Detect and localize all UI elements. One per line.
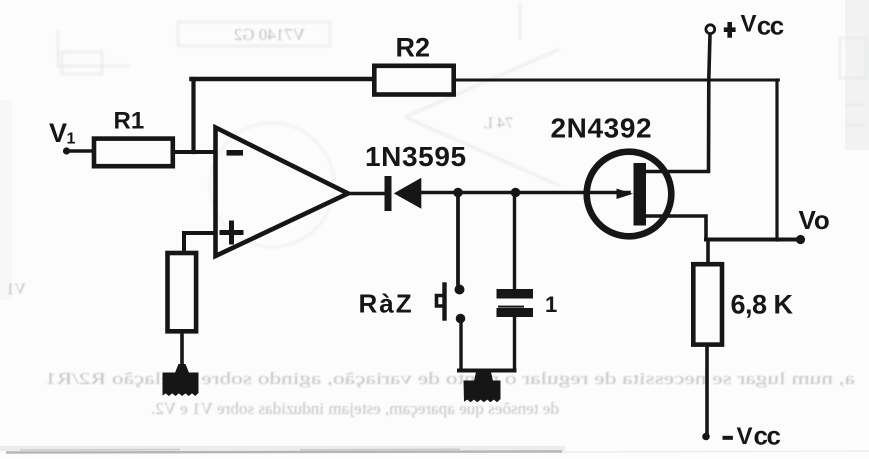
svg-text:R1: R1 (114, 108, 145, 135)
svg-text:1N3595: 1N3595 (365, 141, 467, 172)
-Vcc terminal (702, 433, 710, 441)
switch RaZ actuator (442, 285, 446, 319)
transistor Q1 channel bar (634, 163, 647, 226)
transistor Q1 source lead (646, 216, 706, 240)
op-amp U1 (216, 128, 349, 257)
svg-text:RàZ: RàZ (359, 289, 414, 319)
wire output node to Vo (706, 238, 799, 242)
resistor R3 (unlabeled, noninverting input) (168, 253, 197, 331)
wire capacitor branch vertical (513, 193, 516, 290)
wire switch to bottom (459, 324, 462, 371)
wire top feedback to R2 (192, 77, 373, 82)
svg-text:2N4392: 2N4392 (551, 113, 653, 144)
svg-text:cc: cc (754, 421, 781, 451)
wire feedback vertical at node A (191, 79, 195, 152)
wire 6.8K to -Vcc (705, 347, 709, 434)
svg-text:V1: V1 (6, 281, 26, 298)
svg-text:de tensões que apareçam, estej: de tensões que apareçam, estejam induzid… (151, 399, 559, 418)
paper smudges (845, 0, 869, 150)
wire R1 to op-amp inverting input (175, 150, 215, 154)
resistor R4 6.8K (693, 264, 722, 344)
ground (left) (175, 364, 190, 374)
switch RaZ contact top (455, 285, 465, 295)
switch RaZ contact bottom (456, 314, 466, 324)
diode D1 1N3595 cathode bar (385, 176, 392, 211)
svg-text:R2: R2 (396, 33, 431, 63)
main ink (63, 25, 805, 441)
svg-text:V: V (741, 10, 757, 37)
wire bottom joining switch and capacitor (459, 369, 515, 373)
svg-text:1: 1 (545, 292, 557, 317)
svg-text:1: 1 (67, 131, 76, 148)
capacitor C1 bottom plate (498, 306, 524, 308)
ground (middle) stub (474, 372, 493, 381)
label -Vcc minus sign (723, 436, 733, 440)
wire V1 to R1 (67, 149, 94, 152)
ghost mirrored caption text line 1 (45, 369, 855, 388)
svg-text:V: V (737, 423, 753, 450)
junction node capacitor branch (511, 188, 521, 198)
op-amp minus symbol (227, 150, 244, 156)
label +Vcc plus sign (724, 22, 736, 38)
ghost show-through: rectangle top (58, 2, 866, 247)
svg-text:74 L: 74 L (483, 115, 513, 132)
svg-text:6,8 K: 6,8 K (731, 290, 794, 320)
bottom scan-edge band (0, 446, 565, 451)
transistor Q1 drain lead (646, 34, 710, 172)
wire to resistor 6.8K (706, 240, 710, 263)
wire capacitor to bottom (513, 317, 516, 371)
transistor Q1 2N4392 body (587, 152, 672, 237)
wire op-amp output to diode (348, 192, 386, 196)
wire diode to FET gate (421, 191, 629, 195)
node V1 terminal (63, 147, 70, 154)
transistor Q1 gate arrow (617, 189, 634, 199)
wire op-amp noninverting input (184, 233, 216, 251)
svg-text:Vo: Vo (799, 205, 830, 235)
ghost mirrored caption text line 2 (6, 25, 559, 418)
+Vcc terminal (706, 25, 715, 34)
junction node switch branch (453, 188, 463, 198)
wire feedback down to output node (775, 80, 778, 240)
svg-text:V7140 G2: V7140 G2 (234, 25, 305, 44)
diode D1 triangle (394, 178, 422, 209)
wire R2 right to corner (456, 79, 778, 82)
svg-text:cc: cc (757, 11, 784, 41)
svg-text:V: V (49, 118, 67, 148)
wire R3 to ground (180, 334, 184, 375)
resistor R2 (374, 66, 453, 95)
resistor R1 (94, 139, 173, 167)
node Vo terminal (796, 235, 805, 244)
op-amp plus symbol (222, 223, 241, 242)
ground (middle) (464, 381, 501, 403)
capacitor C1 top plate (497, 289, 534, 299)
wire switch branch vertical (456, 193, 460, 285)
